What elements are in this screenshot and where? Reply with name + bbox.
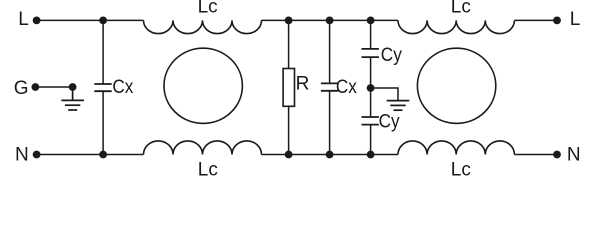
junction dot Cx1 top xyxy=(99,17,107,25)
node N (right terminal) xyxy=(553,145,581,166)
node N (left terminal) xyxy=(15,145,40,166)
inductor Lc (bottom left) xyxy=(144,141,262,181)
capacitor Cx (second) xyxy=(321,20,357,154)
wire top rail right xyxy=(514,19,557,21)
ground (middle) xyxy=(387,101,410,111)
svg-text:N: N xyxy=(15,145,29,166)
junction dot R top xyxy=(285,17,293,25)
svg-text:N: N xyxy=(567,145,581,166)
junction dot Cx1 bottom xyxy=(99,151,107,159)
wire bottom rail middle xyxy=(261,154,398,156)
svg-text:Lc: Lc xyxy=(198,0,218,18)
junction dot on G wire xyxy=(69,83,77,91)
svg-text:L: L xyxy=(18,9,29,30)
svg-text:Cy: Cy xyxy=(379,112,400,133)
resistor R xyxy=(283,20,309,154)
capacitor Cy (upper) xyxy=(362,20,403,88)
junction dot R bottom xyxy=(285,151,293,159)
inductor Lc (top right) xyxy=(398,0,514,34)
svg-text:R: R xyxy=(296,74,310,95)
node L (left terminal) xyxy=(18,9,40,30)
wire G to ground xyxy=(35,86,72,88)
inductor Lc (bottom right) xyxy=(398,141,514,181)
junction dot Cy middle xyxy=(367,84,375,92)
wire top rail middle xyxy=(261,19,398,21)
svg-text:Lc: Lc xyxy=(451,0,471,18)
svg-text:L: L xyxy=(570,9,581,30)
node G (ground terminal) xyxy=(14,78,40,99)
inductor Lc (top left) xyxy=(144,0,262,34)
junction dot Cx2 bottom xyxy=(326,151,334,159)
wire bottom rail left xyxy=(37,154,144,156)
wire to middle ground xyxy=(371,88,398,101)
wire top rail left xyxy=(37,19,144,21)
junction dot Cy bottom xyxy=(367,151,375,159)
node L (right terminal) xyxy=(553,9,580,30)
svg-text:Lc: Lc xyxy=(198,159,218,178)
junction dot Cy top xyxy=(367,17,375,25)
choke core circle (left) xyxy=(164,48,242,123)
choke core circle (right) xyxy=(417,48,495,123)
ground (left) xyxy=(61,87,84,110)
capacitor Cy (lower) xyxy=(362,88,401,155)
svg-text:Cy: Cy xyxy=(381,45,402,66)
svg-text:G: G xyxy=(14,78,29,99)
junction dot Cx2 top xyxy=(326,17,334,25)
svg-text:Lc: Lc xyxy=(451,159,471,178)
wire bottom rail right xyxy=(514,154,557,156)
capacitor Cx (first) xyxy=(94,20,134,154)
svg-text:Cx: Cx xyxy=(112,77,133,98)
svg-text:Cx: Cx xyxy=(336,77,357,98)
